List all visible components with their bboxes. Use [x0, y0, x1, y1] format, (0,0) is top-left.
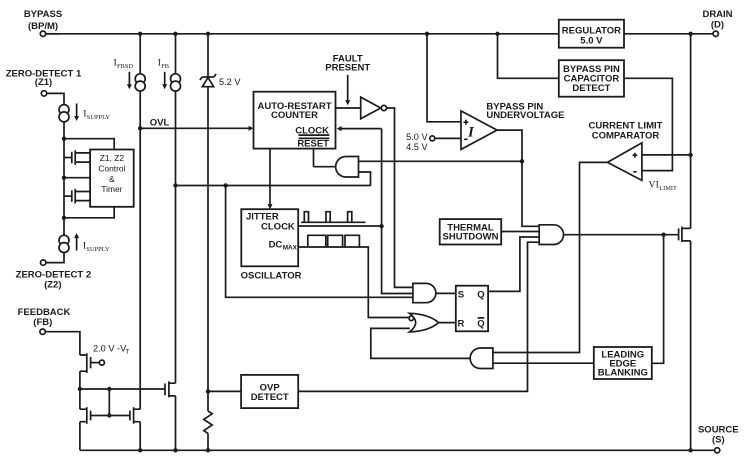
wire oscillator DCMAX output to OR gate bubble input [298, 247, 409, 318]
node dots Z1 Z2 stack [62, 137, 66, 221]
comparator U5 current limit left-facing [589, 121, 663, 181]
block THERMAL SHUTDOWN [440, 219, 502, 244]
svg-text:MAX: MAX [283, 245, 298, 252]
wire bypass pin capacitor detect output to current limit comparator minus input [624, 78, 672, 170]
wire leading edge blanking sense from gate node [652, 235, 664, 364]
wire feedback sense to set AND gate G2 input [226, 186, 413, 298]
gate AND U2 four input gate drive [539, 225, 563, 245]
gate AND G3 blanked current limit left-facing [470, 348, 493, 369]
svg-text:5.2 V: 5.2 V [219, 77, 241, 87]
wire undervoltage comparator output to AND gate U2 input [497, 130, 539, 226]
transistor Q4 feedback follower with 2.0V-VT gate [80, 343, 130, 373]
svg-text:FBSD: FBSD [117, 63, 133, 70]
svg-text:SHUTDOWN: SHUTDOWN [443, 231, 499, 242]
svg-text:OSCILLATOR: OSCILLATOR [241, 271, 302, 282]
svg-text:(Z1): (Z1) [35, 77, 52, 88]
svg-text:2.0 V -V: 2.0 V -V [93, 343, 127, 353]
svg-text:V: V [649, 179, 656, 190]
node dots feedback mirror [78, 387, 112, 418]
svg-text:DRAIN: DRAIN [702, 9, 732, 20]
node dot undervoltage output tap [520, 159, 524, 163]
node dot drain sense tap [688, 153, 692, 157]
terminal SOURCE (S) [698, 424, 739, 453]
wire node D down to mirror gates [80, 389, 130, 450]
wire bypass pin capacitor detect input from top rail [498, 34, 559, 79]
node dots feedback tap line [173, 183, 228, 187]
svg-text:S: S [458, 289, 464, 300]
terminal ZERO-DETECT 2 (Z2) [16, 260, 91, 291]
wire feedback tap line [176, 185, 371, 187]
wire Z2 current source to ZERO-DETECT 2 pin [46, 253, 64, 263]
wire ZERO-DETECT 1 pin to supply current source [47, 93, 64, 104]
wire OVL line into auto-restart counter [140, 126, 253, 131]
wire Q output to AND gate U2 input [488, 237, 539, 291]
svg-text:OVL: OVL [150, 118, 170, 129]
svg-text:DC: DC [269, 240, 283, 251]
transistor Q1 output power MOSFET [679, 227, 691, 242]
current source IFBSD [114, 34, 146, 91]
block SR latch U4 [456, 286, 488, 332]
wire node A to control timer box top [64, 139, 114, 150]
svg-text:5.0 V: 5.0 V [406, 132, 428, 142]
svg-text:SUPPLY: SUPPLY [86, 246, 110, 253]
svg-text:I: I [467, 125, 475, 141]
block BYPASS PIN CAPACITOR DETECT [559, 60, 624, 96]
svg-text:DETECT: DETECT [572, 83, 610, 94]
gate OR G4 reset or [409, 313, 439, 332]
block OVP DETECT [241, 375, 298, 408]
label VILIMIT [649, 179, 678, 192]
transistor Q-Z2 zero detect lower MOSFET [64, 189, 90, 204]
current source IFB [158, 34, 181, 91]
wire current limit comparator plus input to drain line [642, 154, 691, 156]
node dots junctions top rail [138, 32, 693, 36]
wire current limit comparator output to AND G3 input [493, 162, 608, 352]
svg-text:BYPASS: BYPASS [24, 9, 62, 20]
wire node C to control timer box bottom [64, 207, 114, 218]
svg-text:Q: Q [477, 289, 484, 300]
wire FEEDBACK pin to follower transistor [45, 332, 80, 355]
terminal 5.0 V 4.5 V reference input [406, 132, 461, 152]
svg-text:&: & [109, 174, 115, 184]
svg-text:COMPARATOR: COMPARATOR [592, 131, 660, 142]
wire reset AND gate G1 output to auto-restart counter [314, 149, 337, 167]
wire clock into auto-restart counter [337, 126, 413, 294]
wire IFB line down to feedback transistor [175, 91, 177, 450]
wire IFBSD line down to mirror [139, 91, 141, 450]
wire AND U2 output gate drive line [564, 234, 679, 236]
svg-text:Z1, Z2: Z1, Z2 [100, 153, 125, 163]
wire OVP detect output to AND gate U2 input [298, 242, 539, 391]
svg-text:LIMIT: LIMIT [659, 185, 677, 192]
wire follower source down to node D [79, 371, 81, 389]
svg-text:(FB): (FB) [33, 317, 52, 328]
block OSCILLATOR jitter clock dcmax [241, 209, 302, 282]
wire BYPASS pin to top rail [46, 33, 60, 35]
arrow auto-restart counter to oscillator [268, 149, 273, 210]
gate AND G2 set gate [413, 283, 436, 302]
svg-text:DETECT: DETECT [251, 392, 289, 403]
svg-text:(S): (S) [712, 434, 725, 445]
svg-text:(D): (D) [711, 20, 724, 31]
label OVL [150, 118, 170, 129]
wire set AND G2 output to S input [436, 292, 456, 294]
svg-text:FB: FB [161, 63, 169, 70]
current source ISUPPLY Z2 [59, 233, 110, 253]
resistor R1 [204, 411, 212, 450]
wire undervoltage tap to reset AND gate G1 input [359, 160, 523, 162]
transistor Q6 mirror right MOSFET [130, 407, 140, 424]
block REGULATOR 5.0 V [559, 20, 624, 48]
wire bottom source rail [80, 449, 715, 451]
svg-text:PRESENT: PRESENT [325, 63, 370, 74]
svg-text:Control: Control [98, 164, 125, 174]
wire blanked current-limit AND G3 output to OR gate lower input [371, 328, 471, 358]
node dot gate drive blanking tap [661, 233, 665, 237]
wire reset AND gate G1 lower input from feedback tap line [359, 172, 371, 186]
node dot OVP tap [206, 389, 210, 393]
wire OR gate output to R input [439, 322, 456, 324]
wire BYPASS-pin undervoltage sense from top rail to comparator plus input [427, 34, 461, 122]
wire zener line down to resistor [207, 87, 209, 411]
terminal FEEDBACK (FB) [18, 307, 71, 335]
node dot clock junction [379, 224, 383, 228]
svg-text:UNDERVOLTAGE: UNDERVOLTAGE [486, 110, 564, 121]
label FAULT PRESENT with arrow [325, 54, 370, 106]
wire Z1 current source to stack node A [63, 122, 65, 139]
svg-text:Q: Q [477, 319, 484, 330]
svg-text:4.5 V: 4.5 V [406, 142, 428, 152]
wire node C to Z2 supply current source [63, 218, 65, 236]
block LEADING EDGE BLANKING [594, 347, 652, 379]
wire drain lead of output MOSFET [690, 34, 692, 229]
node dot OVL tap [138, 126, 142, 130]
node dots bottom rail [138, 448, 693, 452]
svg-text:R: R [457, 319, 464, 330]
wire top rail from BYPASS to DRAIN [45, 33, 713, 35]
transistor Q-Z1 zero detect upper MOSFET [64, 150, 90, 165]
svg-text:5.0 V: 5.0 V [580, 36, 603, 47]
transistor Q3 feedback sense MOSFET [165, 381, 176, 397]
svg-text:SUPPLY: SUPPLY [87, 114, 111, 121]
waveform clock pulses [301, 212, 366, 223]
wire source lead of output MOSFET to bottom rail [690, 241, 692, 450]
svg-text:CLOCK: CLOCK [261, 222, 295, 233]
wire oscillator clock output [298, 225, 381, 227]
terminal ZERO-DETECT 1 (Z1) [6, 69, 82, 97]
terminal DRAIN (D) [702, 9, 732, 36]
wire fault inverter output to set AND gate G2 top input [387, 108, 413, 287]
block Z1 Z2 Control and Timer [90, 150, 134, 207]
svg-text:RESET: RESET [297, 139, 329, 150]
svg-text:BLANKING: BLANKING [598, 367, 648, 378]
svg-text:(Z2): (Z2) [44, 280, 61, 291]
block AUTO-RESTART COUNTER [254, 92, 336, 150]
svg-text:(BP/M): (BP/M) [28, 21, 58, 32]
wire fault inverter input from counter [336, 107, 361, 109]
wire node D gate line to Q3 [80, 388, 165, 390]
transistor Q5 mirror left MOSFET [80, 407, 91, 424]
wire Z1 Z2 stack rail [63, 139, 65, 218]
current source ISUPPLY Z1 [59, 104, 110, 122]
inverter U3 fault present buffer [361, 97, 387, 119]
svg-text:T: T [126, 349, 130, 356]
svg-text:Timer: Timer [101, 184, 122, 194]
zener diode 5.2 V [200, 34, 241, 87]
waveform dcmax square wave [308, 235, 360, 247]
comparator U1 bypass pin undervoltage [461, 102, 565, 150]
gate AND G1 auto-restart reset left-facing [336, 157, 359, 178]
svg-text:COUNTER: COUNTER [271, 110, 318, 121]
terminal BYPASS (BP/M) [24, 9, 62, 36]
wire node B to control timer box left [64, 177, 90, 179]
wire thermal shutdown output to AND gate U2 [501, 231, 539, 233]
wire OVP detect input tap from zener line [208, 390, 241, 392]
wire leading edge blanking output to AND G3 input [493, 362, 594, 364]
